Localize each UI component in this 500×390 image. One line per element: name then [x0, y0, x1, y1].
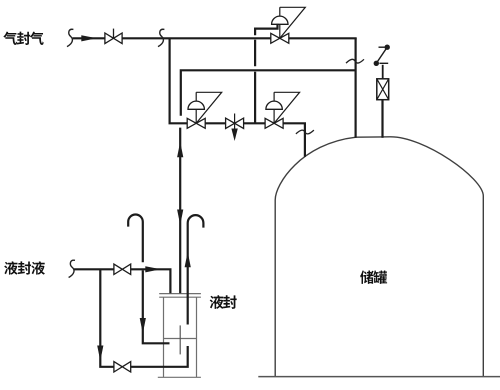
- line break mark b1: [67, 29, 73, 46]
- wire: riser down to tank dome: [355, 38, 357, 138]
- wire: left drop from header to valve row: [170, 38, 188, 123]
- ground line: [258, 376, 500, 378]
- label: seal liquid 液封液: [4, 261, 45, 274]
- seal pot bottom plate: [158, 376, 201, 378]
- flow arrow down: [97, 346, 103, 362]
- flow arrow down on H1 leg: [140, 318, 146, 334]
- vent spout with down arrow: [234, 123, 236, 132]
- label: seal pot 液封: [210, 295, 237, 309]
- label: seal gas 气封气: [3, 32, 43, 45]
- breather valve lever and weights: [382, 65, 384, 79]
- wire: second header pipe: [181, 70, 356, 116]
- break tilde t1: [346, 59, 364, 63]
- liquid level line: [164, 338, 197, 340]
- flow arrow up on H2 leg: [185, 252, 191, 267]
- swan neck vent H2: [188, 215, 204, 324]
- wire: to seal pot top: [131, 269, 171, 293]
- wire: valve row segment 1: [205, 122, 226, 124]
- swan neck vent H1: [128, 215, 169, 344]
- flame arrester FA: [377, 79, 389, 100]
- internal dip tube: [179, 325, 181, 354]
- flow arrow right: [145, 266, 161, 272]
- control valve CV2: [195, 109, 197, 123]
- seal pot top flange: [159, 293, 201, 295]
- wire: bottom feed into seal pot riser: [131, 346, 188, 367]
- wire: breather stem on tank dome: [381, 100, 383, 138]
- wire: seal liquid inlet: [74, 268, 114, 270]
- control valve CV1: [279, 24, 281, 38]
- break tilde t2: [296, 130, 314, 134]
- hand valve V4: [114, 362, 122, 372]
- hand valve V1: [113, 29, 115, 39]
- wire: lower branch drop: [100, 269, 114, 367]
- line break mark b2: [158, 29, 164, 46]
- wire: drop line from row to seal pot: [179, 128, 181, 294]
- wire: valve row segment 2: [243, 122, 265, 124]
- wire: row drop to tank dome: [283, 123, 305, 157]
- flow arrow right: [81, 35, 97, 41]
- seal pot right wall: [196, 297, 198, 377]
- flow arrow down: [177, 210, 183, 226]
- wire: CV1 to tank riser: [289, 37, 357, 39]
- wire: header to CV1: [122, 37, 271, 39]
- impulse line from CV1 actuator to valve row: [255, 24, 277, 124]
- vent valve V2: [234, 114, 236, 124]
- wire: seal gas inlet: [73, 37, 105, 39]
- hand valve V3: [114, 264, 122, 274]
- storage tank T1 shell: [275, 137, 483, 377]
- flow arrow up: [177, 142, 183, 158]
- control valve CV3: [273, 109, 275, 123]
- line break mark b3: [69, 260, 75, 277]
- label: tank 储罐: [360, 270, 387, 283]
- seal pot left wall: [163, 297, 165, 377]
